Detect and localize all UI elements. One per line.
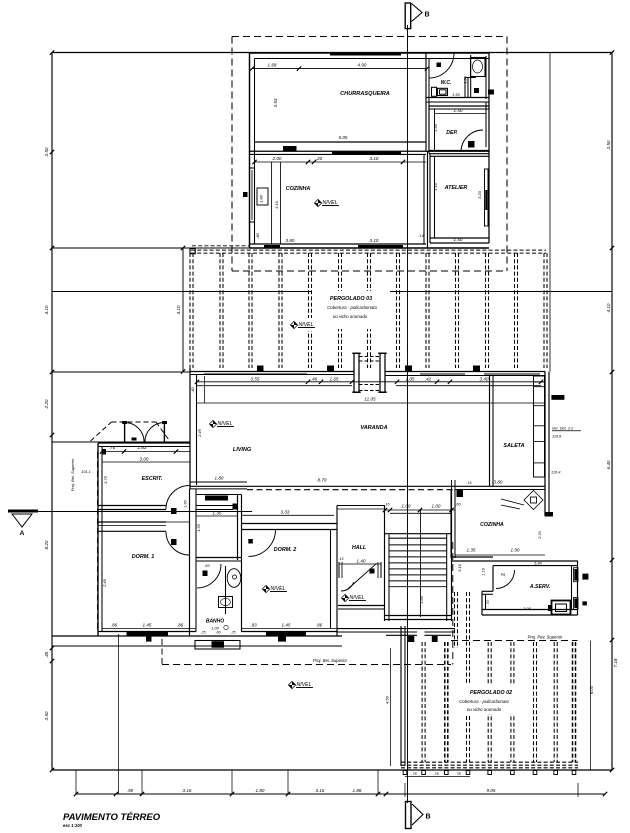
room label DORM2 — [274, 547, 296, 553]
dim 3.55 — [251, 377, 260, 382]
svg-text:1.50: 1.50 — [463, 75, 468, 84]
terrain stub at escritorio corner — [52, 441, 190, 443]
svg-text:3.75: 3.75 — [103, 475, 108, 484]
svg-text:.16: .16 — [384, 503, 390, 507]
banho divider — [225, 566, 227, 614]
churrasqueira interior dim line — [250, 66, 429, 70]
svg-text:.16: .16 — [467, 481, 472, 485]
proj beiral dashed left — [97, 452, 99, 630]
nivel marker hall — [341, 594, 366, 601]
room label HALL — [352, 545, 366, 551]
svg-text:3.10: 3.10 — [370, 156, 379, 161]
svg-text:Proj. Bei. Superior: Proj. Bei. Superior — [70, 458, 75, 491]
nivel marker backyard — [288, 681, 313, 688]
living dim line 11.05 — [197, 376, 545, 403]
svg-text:.86: .86 — [111, 623, 118, 628]
terrain line at main block top — [52, 371, 190, 373]
wc right wall column — [488, 90, 494, 95]
svg-text:1.80: 1.80 — [256, 788, 265, 793]
svg-text:.80: .80 — [255, 232, 260, 238]
svg-text:COZINHA: COZINHA — [480, 522, 504, 528]
dorm2 dim 3.33 — [242, 510, 335, 516]
kitchen left column — [457, 490, 464, 498]
dorm2 window bar — [266, 632, 306, 636]
left dimension ticks — [50, 50, 54, 772]
svg-text:.60: .60 — [455, 503, 461, 507]
svg-text:7.18: 7.18 — [613, 658, 618, 667]
svg-text:5.05: 5.05 — [339, 135, 348, 140]
cozinha bottom wall — [250, 244, 490, 248]
svg-text:A: A — [20, 530, 25, 537]
room label SALETA — [503, 443, 524, 449]
kitchen left wall — [451, 490, 455, 559]
svg-text:4.10: 4.10 — [176, 305, 181, 314]
porch posts — [122, 421, 167, 442]
svg-text:8.70: 8.70 — [318, 478, 327, 483]
svg-text:4.50: 4.50 — [385, 695, 390, 704]
svg-text:1.60: 1.60 — [184, 499, 188, 507]
banho bidet — [219, 597, 233, 608]
title PAVIMENTO TERREO — [63, 812, 161, 828]
hall door diagonal — [341, 563, 377, 591]
annex right wall — [486, 53, 489, 244]
room label CHURRASQUEIRA — [340, 91, 390, 97]
svg-text:DORM. 1: DORM. 1 — [132, 554, 154, 560]
svg-text:3.50: 3.50 — [44, 147, 49, 156]
section line B vertical — [407, 25, 409, 803]
svg-text:Ver. Det. 2-2: Ver. Det. 2-2 — [552, 427, 574, 431]
cozinha window bay — [250, 168, 269, 222]
pergolado02 text underlay — [450, 685, 532, 714]
section marker B top — [405, 3, 429, 29]
pergolado02 beam feet — [403, 771, 576, 775]
aserv top wall — [493, 561, 578, 566]
escritorio left wall — [98, 443, 102, 636]
porch door arcs — [125, 423, 165, 443]
svg-text:DORM. 2: DORM. 2 — [274, 547, 296, 553]
stair top dim line — [383, 503, 462, 513]
svg-text:1.35: 1.35 — [467, 548, 476, 553]
living bottom-left wall — [190, 482, 545, 489]
atelier top wall — [430, 155, 489, 157]
cozinha right wall — [424, 151, 428, 248]
dorm2 top wall — [242, 524, 338, 530]
svg-text:3.16: 3.16 — [457, 563, 462, 572]
svg-text:3.16: 3.16 — [183, 788, 192, 793]
cozinha top window bar — [332, 152, 401, 155]
svg-text:1.50: 1.50 — [452, 92, 461, 97]
svg-text:Proj. Bei. Superior: Proj. Bei. Superior — [313, 658, 348, 663]
banho top wall — [196, 558, 242, 562]
svg-text:4.90: 4.90 — [358, 63, 367, 68]
svg-text:ATELIER: ATELIER — [444, 185, 468, 191]
pergolado02 feet dim — [405, 772, 470, 777]
extension line right corner — [549, 53, 551, 372]
atelier label — [444, 185, 468, 191]
dim 1.05 — [406, 377, 415, 382]
pergola dim line 4.10 — [176, 246, 185, 374]
banho window box — [195, 641, 240, 650]
hall entry dim 1.40 — [339, 557, 382, 564]
kitchen dim 3.80 — [467, 480, 503, 486]
svg-text:1.85: 1.85 — [419, 595, 424, 604]
pergolado02 dim 8.00 line — [589, 641, 594, 771]
svg-text:4.10: 4.10 — [44, 305, 49, 314]
atelier bottom wall — [430, 238, 489, 243]
section line A horizontal — [8, 511, 252, 513]
porch corner block — [102, 449, 107, 455]
wc dim 1.50 — [452, 92, 461, 97]
pergolado02 sub2 — [467, 707, 502, 712]
saleta shelves — [534, 376, 545, 477]
room label LIVING — [233, 447, 252, 453]
pergolado02 left wall — [401, 626, 405, 766]
svg-text:VARANDA: VARANDA — [360, 425, 387, 431]
dim .42 — [425, 377, 432, 382]
house bottom wall right — [337, 629, 455, 636]
pergolado02 label — [470, 690, 512, 696]
hall entry jambs — [339, 562, 381, 578]
svg-text:3.53: 3.53 — [273, 98, 278, 107]
escritorio top wall — [98, 443, 190, 447]
room label ESCRIT — [142, 476, 163, 482]
svg-text:Cobertura - policarbonato: Cobertura - policarbonato — [459, 699, 509, 704]
proj pav superior dashed vert — [452, 542, 454, 665]
dorm1 bottom dims — [111, 623, 184, 628]
cozinha bottom window — [264, 245, 403, 248]
site boundary right dimension line — [611, 53, 613, 771]
dorm2 bottom wall — [242, 628, 338, 631]
escritorio dim line2 — [102, 457, 190, 463]
svg-text:1.65: 1.65 — [330, 377, 339, 382]
svg-text:11.05: 11.05 — [364, 397, 376, 402]
svg-text:126.4: 126.4 — [551, 471, 561, 475]
closet dim 1.35 — [196, 511, 238, 517]
svg-text:Proj. Pav. Superior: Proj. Pav. Superior — [528, 635, 563, 640]
site boundary left dimension line — [51, 53, 53, 771]
svg-text:3.55: 3.55 — [251, 377, 260, 382]
proj bei superior vert stub — [161, 639, 163, 665]
svg-text:SALETA: SALETA — [503, 443, 524, 449]
kitchen dim rot 2.33 — [538, 530, 542, 539]
svg-text:4.10: 4.10 — [606, 303, 611, 312]
dim label 3.10 — [370, 156, 379, 161]
proj beiral dashed rect top annex — [232, 37, 507, 272]
svg-text:1.50: 1.50 — [433, 123, 438, 132]
svg-text:A.SERV.: A.SERV. — [529, 584, 550, 590]
svg-text:1.80: 1.80 — [259, 194, 264, 203]
pergolado03 top edge dashed — [191, 250, 546, 253]
dep rot dim 1.50 — [433, 123, 438, 132]
svg-text:1.35: 1.35 — [213, 511, 222, 516]
main top wall windows — [204, 373, 540, 375]
right dim label 3.50 — [606, 140, 611, 149]
stair landing line — [389, 586, 447, 588]
svg-text:.42: .42 — [425, 377, 432, 382]
svg-text:esc 1:100: esc 1:100 — [63, 823, 83, 828]
dep top wall — [429, 106, 489, 109]
aserv right wall — [572, 561, 578, 616]
kitchen corner column — [545, 512, 553, 517]
svg-text:1.35: 1.35 — [196, 523, 201, 532]
svg-text:.20: .20 — [316, 156, 323, 161]
nivel marker cozinha — [314, 199, 339, 206]
churrasqueira bottom line — [255, 141, 427, 143]
corridor rot dim 3.16 — [457, 563, 462, 572]
stair right wall — [447, 489, 452, 621]
right dim label 6.40 — [606, 460, 611, 469]
banho shower arc — [197, 564, 221, 588]
svg-text:ou vidro aramado: ou vidro aramado — [467, 707, 502, 712]
grill counter black — [283, 146, 297, 151]
dim label 3.53 rot — [273, 98, 278, 107]
cozinha bottom dims — [286, 234, 424, 243]
escritorio dim line1 — [100, 445, 190, 454]
svg-text:2.20: 2.20 — [44, 399, 49, 409]
dorm1 rot dim 2.46 — [102, 578, 107, 588]
hall top walls — [337, 506, 385, 510]
svg-text:8.20: 8.20 — [44, 540, 49, 549]
aserv left wall — [482, 566, 493, 615]
dorm1 top wall — [98, 522, 190, 531]
dim label 5.05 — [339, 135, 348, 140]
terrain line at pergola top — [52, 247, 250, 249]
dim .40 rot — [190, 386, 195, 392]
svg-text:3.80: 3.80 — [494, 480, 503, 485]
svg-text:3.20: 3.20 — [477, 190, 482, 199]
svg-text:.25: .25 — [200, 631, 205, 635]
pergola corner column — [190, 249, 195, 254]
churrasqueira bottom wall — [250, 151, 490, 154]
closet shelf — [197, 504, 238, 510]
dorm1 wall column — [146, 636, 152, 642]
dep door arc — [461, 130, 483, 152]
terrain division line mid — [52, 291, 612, 293]
svg-text:.83: .83 — [250, 623, 257, 628]
escritorio door arc — [166, 486, 190, 515]
note 116.8 — [552, 435, 562, 439]
aserv washtub — [548, 601, 571, 615]
dorm2 right wall — [331, 506, 338, 637]
svg-text:1.19: 1.19 — [482, 567, 486, 575]
svg-text:3.05: 3.05 — [523, 606, 532, 611]
dim label 1.68 — [268, 63, 277, 68]
wc toilet — [432, 87, 448, 96]
svg-text:1.45: 1.45 — [282, 623, 291, 628]
dim .46 — [311, 377, 318, 382]
svg-text:HALL: HALL — [352, 545, 366, 551]
svg-text:1.45: 1.45 — [143, 623, 152, 628]
escritorio rot dim 3.75 — [103, 475, 108, 484]
living rot dim 2.45 — [197, 428, 202, 438]
svg-text:1.68: 1.68 — [268, 63, 277, 68]
kitchen dim line — [455, 548, 545, 556]
aserv bottom wall — [482, 610, 578, 616]
dim 8.70 — [318, 478, 327, 483]
dorm2 bottom dims — [250, 623, 322, 628]
dep dim 1.50 — [435, 108, 486, 114]
svg-text:CHURRASQUEIRA: CHURRASQUEIRA — [340, 91, 390, 97]
proj pav superior dashed — [451, 635, 578, 641]
stair dim vert — [419, 510, 424, 617]
porch roof dashed — [91, 422, 170, 441]
svg-text:B: B — [424, 12, 429, 19]
svg-text:.15: .15 — [339, 557, 344, 561]
svg-text:.86: .86 — [177, 623, 184, 628]
svg-text:ESCRIT.: ESCRIT. — [142, 476, 163, 482]
cozinha wall column black — [243, 192, 248, 197]
proj bei superior dashed — [162, 658, 451, 665]
svg-text:8.00: 8.00 — [589, 685, 594, 694]
atelier dim 1.50 — [454, 237, 463, 242]
svg-text:B: B — [425, 814, 430, 821]
svg-text:LIVING: LIVING — [233, 447, 252, 453]
svg-text:1.80: 1.80 — [215, 476, 224, 481]
stair treads — [389, 545, 447, 581]
pergolado03 label — [330, 296, 372, 302]
atelier rot dim 3.20 — [477, 190, 482, 199]
closet rot dim 1.35 — [196, 523, 201, 532]
svg-text:3.50: 3.50 — [44, 711, 49, 720]
svg-text:1.00: 1.00 — [432, 504, 441, 509]
dim 3.40 — [480, 377, 489, 382]
lavabo counter black — [205, 496, 228, 501]
svg-text:1.50: 1.50 — [454, 108, 463, 113]
room label COZINHA — [480, 522, 504, 528]
aserv columns right — [582, 574, 588, 606]
pergolado03 sub1 — [327, 305, 377, 310]
svg-text:DEP.: DEP. — [446, 130, 457, 136]
dep bottom wall — [429, 151, 489, 154]
left dim label .45 — [44, 651, 49, 658]
stair left wall — [385, 506, 390, 622]
wc bottom wall — [426, 98, 489, 103]
nivel marker dorm2 — [262, 585, 287, 592]
cozinha inner dim vert — [274, 162, 281, 244]
dorm1 bottom wall — [52, 628, 342, 636]
svg-text:3.10: 3.10 — [274, 200, 279, 209]
closet right wall — [238, 495, 242, 632]
svg-text:1.00: 1.00 — [402, 504, 411, 509]
svg-text:PERGOLADO 02: PERGOLADO 02 — [470, 690, 512, 696]
wc label — [441, 80, 452, 86]
kitchen sink — [501, 491, 543, 510]
cozinha counter line — [271, 162, 273, 244]
bottom dimension line — [74, 792, 607, 796]
pergolado02 bottom edge — [401, 762, 578, 768]
svg-text:BANHO: BANHO — [206, 619, 224, 625]
stair landing top line — [390, 512, 452, 514]
svg-text:PAVIMENTO TÉRREO: PAVIMENTO TÉRREO — [63, 812, 161, 823]
vestibule posts — [352, 353, 386, 392]
closet top line — [197, 494, 242, 496]
note 101.1 — [81, 470, 91, 474]
svg-text:1.90: 1.90 — [511, 548, 520, 553]
aserv rot dims — [482, 567, 491, 605]
left dim label 4.10 — [44, 305, 49, 314]
wc door mark — [474, 88, 479, 93]
main wall columns — [257, 366, 480, 373]
atelier left wall — [430, 154, 435, 243]
main top dim line — [195, 380, 545, 384]
bottom dim extensions — [76, 634, 378, 794]
svg-text:2.45: 2.45 — [197, 428, 202, 438]
hall bottom wall — [338, 606, 385, 610]
svg-text:COZINHA: COZINHA — [286, 186, 311, 192]
pergolado03 sub2 — [333, 314, 368, 319]
stair top wall — [385, 534, 452, 539]
aserv door arc — [496, 570, 515, 589]
left dim label 3.50b — [44, 711, 49, 720]
escritorio bottom wall — [98, 506, 166, 510]
pergola top dash stub — [192, 245, 250, 247]
svg-text:3.16: 3.16 — [316, 788, 325, 793]
divider churrasqueira-wc — [426, 53, 429, 151]
svg-text:2.00: 2.00 — [272, 156, 282, 161]
wc shower arc — [429, 53, 454, 78]
nivel marker pergolado03 — [288, 318, 322, 331]
svg-text:1.83: 1.83 — [138, 445, 147, 450]
dim 1.65 — [330, 377, 339, 382]
right dim label 7.18 — [613, 658, 618, 667]
svg-text:.78: .78 — [411, 772, 417, 776]
aserv windows right — [574, 568, 579, 610]
proj beiral rot text — [70, 458, 75, 491]
svg-text:116.8: 116.8 — [552, 435, 562, 439]
svg-text:5.80: 5.80 — [534, 561, 543, 566]
vestibule steps dashed — [359, 357, 380, 362]
varanda edge dashed — [247, 489, 453, 491]
site boundary bottom line — [52, 769, 612, 771]
pergolado02 sub1 — [459, 699, 509, 704]
svg-text:9.05: 9.05 — [487, 788, 496, 793]
dim label 2.00 — [272, 156, 282, 161]
section marker B bottom — [406, 802, 431, 829]
cozinha label — [286, 186, 311, 192]
left dim label 2.20 — [44, 399, 49, 409]
bottom dim labels — [127, 788, 362, 793]
cozinha rot dim .80 — [255, 232, 260, 238]
svg-text:6.40: 6.40 — [606, 460, 611, 469]
spine wall — [190, 489, 197, 636]
annex top wall — [250, 53, 490, 59]
svg-text:1.50: 1.50 — [454, 237, 463, 242]
dep left wall — [429, 106, 435, 154]
right dim label 4.10 — [606, 303, 611, 312]
svg-text:101.1: 101.1 — [81, 470, 91, 474]
banho bottom dims — [200, 631, 235, 635]
ver det note — [552, 427, 581, 431]
kitchen bottom wall — [451, 557, 493, 561]
svg-text:1.40: 1.40 — [357, 559, 366, 564]
wc dim 1.50 rot — [463, 75, 468, 84]
svg-text:.70: .70 — [486, 601, 490, 606]
pergolado02 dim 9.05 — [405, 783, 578, 797]
site boundary top line — [52, 52, 612, 54]
svg-text:.25: .25 — [230, 631, 235, 635]
atelier right window — [485, 169, 489, 226]
svg-text:3.40: 3.40 — [480, 377, 489, 382]
rear door squares — [408, 636, 437, 642]
annex top wall window bar — [330, 53, 401, 56]
svg-text:.78: .78 — [455, 772, 461, 776]
rot dim 1.60 door — [184, 499, 188, 507]
dorm1 window bar — [127, 632, 169, 636]
room label ASERV — [529, 584, 550, 590]
banho shower head — [227, 569, 241, 588]
aserv dim 3.05 — [523, 606, 532, 611]
svg-text:3.16: 3.16 — [433, 182, 438, 191]
